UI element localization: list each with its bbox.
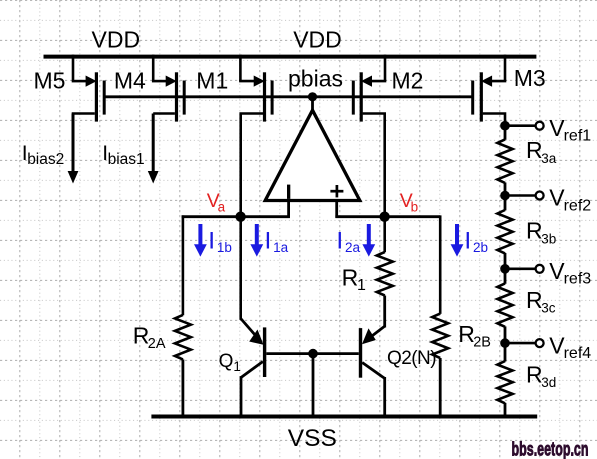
svg-text:I: I bbox=[336, 228, 343, 255]
resistor R2A bbox=[175, 315, 191, 360]
wire op-amp minus input stub bbox=[287, 201, 290, 218]
node Vref1 junction dot bbox=[500, 121, 510, 131]
reference chain wires bbox=[504, 126, 507, 140]
svg-text:VDD: VDD bbox=[293, 26, 342, 52]
node Vref3 junction dot bbox=[500, 264, 510, 274]
wire R1 to Q2 emitter bbox=[383, 296, 386, 328]
wire op-amp plus input stub bbox=[335, 201, 338, 218]
node Vref4 junction dot bbox=[500, 338, 510, 348]
M1 drain wire to node Va and Q1 emitter bbox=[241, 114, 263, 320]
svg-text:ref3: ref3 bbox=[564, 271, 592, 288]
terminal Vref2 bbox=[536, 192, 544, 200]
svg-text:3b: 3b bbox=[541, 231, 556, 246]
pbias junction dot bbox=[308, 92, 317, 101]
transistor M2 bbox=[352, 55, 387, 122]
op-amp inverting input tick bbox=[287, 185, 290, 199]
svg-text:bias2: bias2 bbox=[27, 151, 64, 168]
wire R2A to VSS bbox=[181, 359, 184, 416]
transistor M4 bbox=[152, 55, 186, 122]
VDD rail bbox=[44, 55, 537, 59]
current arrow I2a bbox=[367, 224, 371, 246]
svg-text:M4: M4 bbox=[114, 68, 146, 94]
svg-text:R: R bbox=[526, 362, 543, 388]
wire pbias dot to op-amp output bbox=[311, 97, 314, 112]
transistor M5 bbox=[72, 55, 106, 122]
wire Vb to R2B bbox=[439, 215, 442, 314]
current arrow Ibias1 bbox=[152, 114, 155, 173]
wire tap Vref3 bbox=[505, 267, 535, 270]
current arrow I1a bbox=[255, 224, 259, 246]
terminal Vref3 bbox=[536, 265, 544, 273]
transistor M3 bbox=[471, 55, 506, 122]
svg-text:2b: 2b bbox=[473, 240, 488, 255]
resistor R3c bbox=[497, 283, 512, 326]
svg-text:pbias: pbias bbox=[288, 65, 343, 91]
svg-text:2B: 2B bbox=[473, 334, 491, 350]
svg-text:M5: M5 bbox=[34, 68, 66, 94]
svg-text:R: R bbox=[526, 137, 543, 163]
svg-text:R: R bbox=[342, 264, 359, 290]
svg-text:I: I bbox=[265, 228, 272, 255]
node Vb junction dot bbox=[379, 212, 389, 222]
current arrow Ibias2 bbox=[72, 114, 75, 173]
svg-text:bbs.eetop.cn: bbs.eetop.cn bbox=[512, 439, 589, 459]
base junction dot bbox=[308, 349, 318, 359]
svg-text:bias1: bias1 bbox=[108, 151, 145, 168]
op-amp plus sign bbox=[330, 190, 343, 193]
svg-text:1a: 1a bbox=[273, 240, 289, 255]
svg-text:R: R bbox=[526, 218, 543, 244]
svg-text:3a: 3a bbox=[541, 151, 557, 166]
terminal Vref4 bbox=[536, 339, 544, 347]
svg-text:3c: 3c bbox=[541, 301, 556, 316]
svg-text:2A: 2A bbox=[148, 336, 166, 352]
wire R2B to VSS bbox=[439, 358, 442, 417]
svg-text:M2: M2 bbox=[392, 68, 424, 94]
M2 drain wire to node Vb and R1 bbox=[363, 114, 385, 253]
M5 drain wire bbox=[73, 114, 95, 173]
resistor R1 bbox=[377, 252, 393, 296]
current arrow I2b bbox=[455, 224, 459, 246]
transistor Q2 bbox=[359, 326, 385, 416]
wire Q1 base to Q2 base bbox=[266, 352, 359, 355]
svg-text:ref1: ref1 bbox=[564, 128, 592, 145]
svg-text:1: 1 bbox=[357, 277, 366, 294]
M3 drain wire bbox=[483, 114, 505, 127]
current arrow I1b bbox=[198, 224, 202, 246]
svg-text:3d: 3d bbox=[541, 375, 556, 390]
svg-text:VDD: VDD bbox=[92, 26, 141, 52]
svg-text:M3: M3 bbox=[514, 65, 546, 91]
wire tap Vref1 bbox=[505, 124, 535, 127]
resistor R3b bbox=[497, 210, 512, 253]
transistor M1 bbox=[239, 55, 274, 122]
resistor R3d bbox=[497, 361, 512, 403]
svg-text:b: b bbox=[411, 199, 419, 214]
svg-text:M1: M1 bbox=[196, 68, 228, 94]
wire tap Vref2 bbox=[505, 194, 535, 197]
wire base node to VSS bbox=[312, 354, 315, 417]
terminal Vref1 bbox=[536, 122, 544, 130]
svg-text:I: I bbox=[208, 228, 215, 255]
svg-text:a: a bbox=[218, 199, 226, 214]
svg-text:1: 1 bbox=[233, 359, 241, 374]
resistor R2B bbox=[432, 314, 448, 358]
op-amp U1 triangle bbox=[265, 110, 360, 200]
svg-text:Q2(N): Q2(N) bbox=[387, 348, 436, 369]
wire Va to R2A bbox=[182, 215, 185, 315]
VSS rail bbox=[151, 415, 537, 419]
wire node Vb horizontal bbox=[335, 215, 440, 218]
svg-text:2a: 2a bbox=[345, 240, 361, 255]
svg-text:ref4: ref4 bbox=[564, 345, 592, 362]
svg-text:R: R bbox=[526, 287, 543, 313]
node Va junction dot bbox=[235, 212, 245, 222]
transistor Q1 bbox=[241, 319, 267, 417]
wire node Va horizontal bbox=[182, 215, 290, 218]
wire tap Vref4 bbox=[505, 342, 535, 345]
node Vref2 junction dot bbox=[500, 191, 510, 201]
svg-text:ref2: ref2 bbox=[564, 197, 592, 214]
gate bus (pbias net) bbox=[104, 95, 472, 98]
resistor R3a bbox=[497, 139, 512, 183]
svg-text:Q: Q bbox=[219, 351, 234, 372]
M4 drain wire bbox=[153, 112, 175, 115]
svg-text:VSS: VSS bbox=[288, 425, 337, 452]
svg-text:I: I bbox=[464, 228, 471, 255]
svg-text:1b: 1b bbox=[217, 240, 232, 255]
